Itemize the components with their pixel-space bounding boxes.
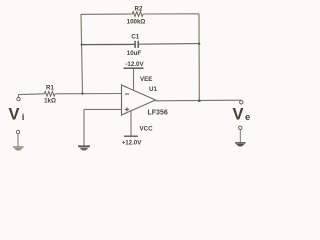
junction output feedback node [198,99,201,102]
svg-text:LF356: LF356 [148,110,168,117]
VCC supply bar +12.0V [124,135,138,137]
svg-text:V: V [233,105,244,123]
svg-text:R1: R1 [46,85,54,92]
svg-text:VEE: VEE [140,76,152,83]
U1 reference label [149,86,157,93]
wire C1 row right segment [139,43,199,46]
ground [78,146,90,150]
input terminal Vi circle [17,97,20,100]
svg-text:VCC: VCC [140,126,154,133]
VEE pin label [140,76,152,83]
Vi lower terminal stub [17,134,19,147]
C1 reference label [131,34,139,41]
Ve lower terminal stub [239,130,241,143]
wire top left segment to R2 [81,13,133,15]
wire input row to R1 [19,93,45,96]
VCC supply label +12.0V [122,139,143,146]
VCC pin wire [130,111,132,136]
capacitor C1 [135,41,138,48]
svg-text:C1: C1 [131,34,139,41]
svg-text:U1: U1 [149,86,157,93]
Ve lower terminal circle [239,126,242,129]
junction right C1 row [198,43,200,45]
wire left feedback vertical [81,14,83,94]
wire C1 row left segment [82,43,135,45]
input terminal Vi stub [18,95,20,98]
svg-text:i: i [22,112,25,123]
svg-text:10uF: 10uF [127,50,142,57]
junction left C1 row [81,44,83,46]
Ve label [233,105,251,123]
R1 reference label [46,85,54,92]
wire output row [155,99,241,102]
VEE pin wire [133,68,135,90]
wire R1 to inverting input [55,93,121,95]
op-amp U1 [122,85,156,115]
U1 part label LF356 [148,110,168,117]
svg-text:100kΩ: 100kΩ [127,19,146,26]
wire noninverting down to ground [83,109,85,146]
svg-text:e: e [245,112,250,123]
svg-text:R2: R2 [135,5,143,12]
wire noninverting input row [84,108,122,110]
Ve ground [235,143,246,147]
VEE supply label -12.0V [125,61,144,68]
C1 value label 10uF [127,50,142,57]
svg-text:V: V [9,105,20,123]
svg-text:-12.0V: -12.0V [125,61,144,68]
VEE supply bar -12.0V [124,67,144,69]
R2 reference label [135,5,143,12]
Vi label [9,105,25,123]
R1 value label 1kΩ [44,97,56,104]
R2 value label 100kΩ [127,19,146,26]
resistor R2 [132,12,143,17]
output terminal Ve circle [240,101,243,104]
svg-text:+12.0V: +12.0V [122,139,143,146]
VCC pin label [140,126,154,133]
svg-text:1kΩ: 1kΩ [44,97,56,104]
wire right feedback vertical [198,14,200,101]
resistor R1 [44,91,55,96]
Vi lower terminal circle [16,130,19,133]
junction inverting input node [81,93,83,95]
wire top right segment from R2 [143,13,199,15]
Vi ground [13,147,24,151]
